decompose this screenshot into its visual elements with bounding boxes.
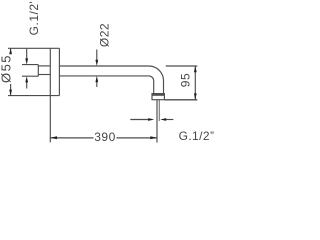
svg-text:95: 95 xyxy=(178,73,192,87)
svg-text:G.1/2': G.1/2' xyxy=(27,1,41,36)
svg-text:G.1/2”: G.1/2” xyxy=(179,129,215,143)
svg-text:390: 390 xyxy=(94,130,116,144)
svg-text:Ø55: Ø55 xyxy=(0,54,14,83)
svg-text:Ø22: Ø22 xyxy=(98,23,112,47)
